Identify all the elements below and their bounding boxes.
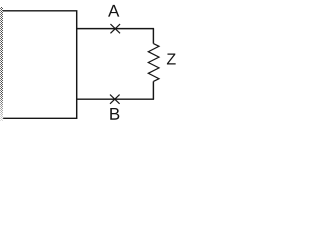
hatched left edge of network box <box>0 7 3 121</box>
impedance Z (zigzag resistor body) <box>148 44 159 82</box>
wire: bottom lead from box to impedance <box>77 98 154 100</box>
wire: top lead from box to impedance <box>77 28 154 30</box>
wire: right vertical segment above impedance <box>152 29 154 44</box>
node B terminal cross <box>110 95 120 104</box>
wire: right vertical segment below impedance <box>152 81 154 99</box>
network box (two-terminal network) <box>1 11 77 119</box>
label B (node B) <box>110 108 119 120</box>
node A terminal cross <box>110 24 120 33</box>
label A (node A) <box>108 5 119 17</box>
label Z (impedance) <box>167 53 176 64</box>
